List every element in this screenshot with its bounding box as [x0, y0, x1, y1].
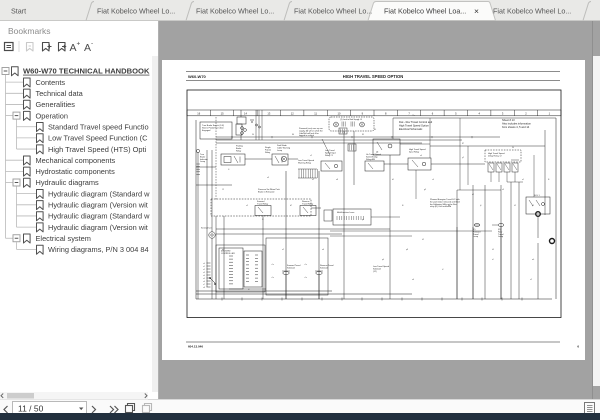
- svg-text:11 / 50: 11 / 50: [18, 404, 44, 414]
